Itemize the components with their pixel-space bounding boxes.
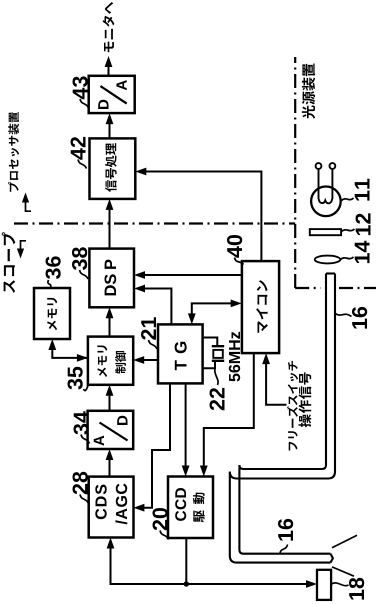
crystal X1 lead 1 — [203, 338, 218, 346]
CCD chip 18 — [317, 570, 331, 600]
lamp 11 — [311, 186, 341, 216]
light ray right — [332, 535, 357, 548]
wire D/A to monitor — [108, 60, 110, 76]
label 12 — [356, 213, 371, 235]
label to-monitor — [103, 2, 115, 52]
wire TG to CDS/AGC — [137, 383, 170, 507]
wire signal-processing to D/A — [109, 116, 111, 138]
box CDS/AGC text line2 — [115, 484, 127, 525]
lamp filament — [319, 199, 332, 203]
crystal X1 lead 2 — [203, 362, 215, 368]
label 21 — [141, 317, 156, 340]
wire TG to memory-control — [137, 359, 159, 361]
box D/A letter D — [98, 100, 108, 109]
aperture 12 — [310, 229, 341, 235]
label 38 — [72, 247, 87, 270]
label 43 — [73, 76, 88, 99]
box CCD-drive text line1 — [175, 488, 186, 521]
wire microcomputer to signal-processing — [139, 172, 262, 262]
boundary scope/processor dash-dot line — [14, 222, 295, 224]
label 11 — [355, 179, 370, 201]
wire freeze-switch signal into microcomputer — [266, 357, 286, 405]
lamp terminal 2 — [330, 163, 336, 169]
box CCD-drive 20 — [168, 477, 213, 539]
boundary light-source dash-dot vertical segment — [295, 287, 376, 289]
label 40 — [227, 235, 242, 258]
lamp lead 2 — [331, 169, 333, 199]
box CCD-drive text line2 — [193, 493, 205, 523]
box TG 21 — [158, 324, 203, 383]
box CDS/AGC text line1 — [95, 485, 106, 519]
box signal-processing text — [105, 143, 117, 192]
wire TG to CCD-drive — [185, 383, 187, 473]
wire memory-control to DSP — [109, 311, 111, 337]
label 20 — [153, 508, 168, 530]
scope cable 16 outer edge — [230, 274, 335, 563]
box A/D letter D — [117, 416, 127, 425]
label processor-unit — [8, 112, 19, 192]
node junction — [184, 581, 189, 586]
box TG text — [175, 342, 187, 371]
box CDS/AGC 28 — [89, 477, 134, 538]
wire CCD-drive output to bus — [185, 538, 187, 584]
box memory 36 — [34, 288, 70, 339]
label 18 — [349, 578, 364, 600]
box memory-control text line1 — [97, 345, 107, 377]
box memory-control 35 — [88, 337, 133, 385]
crystal X1 plates — [212, 346, 224, 361]
box DSP 38 — [89, 249, 134, 308]
label light-source-unit — [302, 64, 315, 119]
wire CDS/AGC to A/D — [109, 452, 111, 477]
wire DSP to signal-processing — [109, 202, 111, 249]
box A/D letter A — [94, 436, 104, 446]
wire memory to memory-control bidirectional — [52, 343, 88, 358]
label 34 — [74, 411, 89, 434]
box microcomputer 40 — [242, 261, 279, 353]
box microcomputer text — [256, 280, 268, 333]
wire microcomputer to CCD-drive — [204, 353, 254, 473]
wire CCD signal bus — [111, 541, 314, 584]
label scope — [2, 232, 16, 293]
label 14 — [355, 241, 370, 263]
label 16 upper — [352, 307, 367, 329]
box signal-processing 42 — [90, 138, 136, 199]
lamp lead 1 — [318, 169, 320, 199]
label 42 — [71, 137, 86, 160]
label 16 lower — [278, 519, 293, 541]
lens 14 — [315, 256, 341, 264]
label 28 — [73, 472, 88, 495]
wire A/D to memory-control — [109, 388, 111, 411]
lamp terminal 1 — [316, 163, 322, 169]
label 56MHz — [229, 332, 240, 382]
label 36 — [46, 256, 61, 279]
box D/A 43 — [89, 76, 135, 113]
box A/D 34 — [88, 411, 134, 449]
label freeze-switch-signal line2 — [299, 372, 312, 427]
box memory-control text line2 — [115, 351, 126, 374]
wire TG to microcomputer bidirectional — [192, 303, 238, 321]
light ray left — [332, 567, 354, 576]
scope cable 16 inner edge — [239, 274, 330, 554]
label 22 — [210, 388, 225, 410]
wire TG to DSP — [138, 289, 172, 325]
crystal X1 body — [213, 350, 223, 358]
box DSP text — [105, 260, 117, 296]
box D/A letter A — [116, 80, 126, 90]
label 35 — [68, 367, 83, 390]
arrow scope side — [21, 240, 27, 252]
wire microcomputer to DSP — [138, 274, 242, 276]
arrow processor side — [26, 200, 32, 212]
scope cable distal tip cap — [331, 554, 333, 563]
box memory text — [47, 298, 57, 330]
label freeze-switch-signal line1 — [287, 361, 298, 451]
scope cable end cap at light source — [326, 272, 335, 274]
boundary light-source dash-dot horizontal segment — [294, 57, 296, 288]
